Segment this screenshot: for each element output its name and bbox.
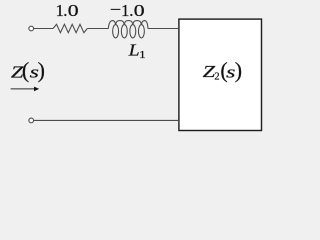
svg-text:1: 1 (139, 50, 146, 61)
svg-text:−: − (110, 0, 121, 19)
svg-text:(: ( (22, 58, 29, 83)
svg-text:0: 0 (134, 1, 145, 20)
svg-text:0: 0 (68, 1, 79, 20)
svg-text:2: 2 (214, 72, 219, 83)
svg-text:L: L (127, 40, 139, 59)
svg-text:): ) (38, 58, 45, 83)
svg-text:): ) (235, 58, 242, 83)
